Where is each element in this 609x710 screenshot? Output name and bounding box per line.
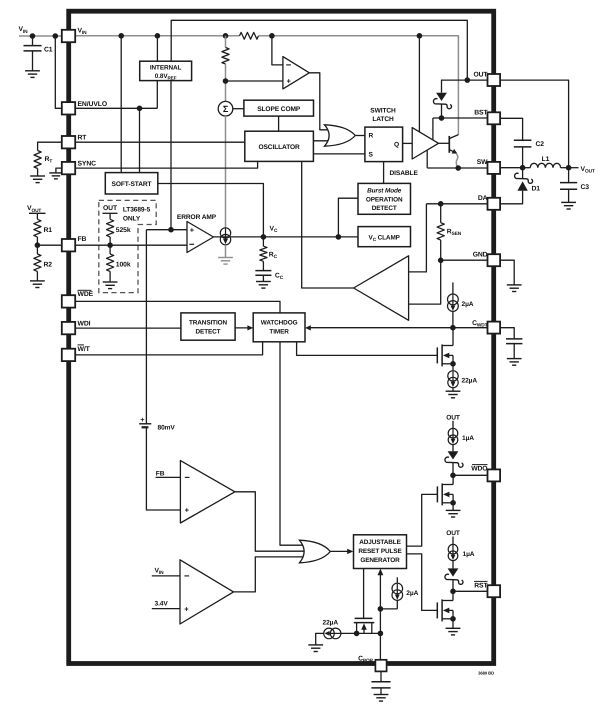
ground 22uA [446,391,461,398]
node BST junction [439,115,445,121]
svg-text:R2: R2 [44,262,53,269]
transistor M4 POR discharge [354,618,375,633]
node RST junction [450,589,456,595]
label OUT (option divider) [103,205,118,212]
wire FB comp - input [156,470,181,477]
wire current comp out [309,73,330,130]
wire reset gen to POR fet gate [363,569,365,619]
current source 2uA (POR) [392,577,419,609]
op-amp error amp [187,222,214,253]
wire C2 to SW node [522,147,524,168]
wire diode to RST node [452,580,454,592]
node VIN rail to driver [417,33,423,39]
current source 22uA (POR) [323,620,341,639]
svg-text:WATCHDOG: WATCHDOG [261,319,298,326]
svg-text:R: R [369,132,374,139]
svg-text:2µA: 2µA [462,301,474,308]
svg-text:OSCILLATOR: OSCILLATOR [258,144,300,151]
wire error amp cs down (gray) [225,245,227,258]
summing junction sigma [218,101,233,116]
pin WT [62,349,75,361]
wire oscillator to OR gate [313,140,332,142]
resistor 525k [107,219,131,237]
node VC at clamp [336,234,342,240]
wire VIN rail external [19,35,62,37]
svg-text:SOFT-START: SOFT-START [112,181,152,188]
label VIN external [19,26,29,35]
transistor M3 RST pulldown [437,591,453,621]
ground CC [256,275,271,288]
transistor M2 WDO pulldown [437,475,453,505]
svg-text:100k: 100k [116,262,131,269]
wire transition to watchdog arrow [235,325,253,330]
label pin OUT [473,71,488,78]
wire or to reset gen arrow [330,549,353,554]
block Burst Mode OPERATION DETECT [358,183,411,214]
current source 2uA (CWDT) [448,282,474,327]
resistor sense divider [222,48,229,65]
wire SYNC net [75,161,258,168]
wire VIN comp out to or [234,557,308,592]
svg-text:Burst Mode: Burst Mode [367,188,402,195]
node VIN rail to sense divider [223,33,229,39]
svg-text:525k: 525k [116,227,131,234]
node CPOR/2uA junction [378,606,384,612]
node POR fet left [354,631,360,637]
inductor L1 [523,156,569,168]
svg-text:FB: FB [78,236,87,243]
svg-text:TIMER: TIMER [269,328,289,335]
svg-text:22µA: 22µA [323,620,339,627]
wire battery to FB comp + [146,427,180,510]
wire RT external [38,142,62,150]
svg-text:WDE: WDE [78,291,94,298]
label VC node [270,226,278,235]
diode D1 [515,168,541,193]
figure number 3689 BD [478,671,494,676]
pin SYNC [62,162,75,174]
svg-text:TRANSITION: TRANSITION [189,319,228,326]
pin VIN [62,30,75,42]
capacitor CC [255,261,283,281]
node option divider junction [107,242,113,248]
pin WDE [62,295,75,307]
svg-text:+: + [140,415,144,424]
diode WDO clamp [445,451,463,467]
ground GND pin [507,285,522,292]
pin CPOR [375,660,386,672]
wire reset gen to M2 gate [407,494,438,546]
node EN junction [137,106,143,112]
pin WDI [62,322,75,334]
svg-text:C3: C3 [581,184,590,191]
block OSCILLATOR [245,131,314,161]
svg-text:RST: RST [474,582,488,589]
wire watchdog to discharge fet gate [297,342,438,356]
wire 22uA to ground [316,633,324,645]
capacitor C1 [24,36,53,71]
svg-text:INTERNAL: INTERNAL [150,65,182,72]
pin RT [62,136,75,148]
wire slope comp to oscillator [278,116,280,131]
buffer driver [412,128,438,159]
label pin WDO (overline) [471,465,487,473]
wire VIN rail internal [75,35,239,37]
label pin CWDT [472,320,488,329]
wire diode to WDO node [452,463,454,476]
svg-text:OUT: OUT [473,71,488,78]
pin CWDT [488,322,501,334]
svg-text:22µA: 22µA [462,378,478,385]
label pin GND [473,251,488,258]
resistor RT external [34,151,52,169]
wire EN branch [55,36,62,108]
wire to current comparator - [272,36,283,65]
label OUT (RST pullup) [446,530,460,537]
block TRANSITION DETECT [181,313,235,340]
svg-text:R1: R1 [44,227,53,234]
capacitor C2 [514,140,545,148]
wire WDO net [453,474,488,476]
label pin EN/UVLO [78,101,108,108]
svg-text:DISABLE: DISABLE [390,170,419,177]
svg-text:Q: Q [394,142,399,149]
svg-text:1µA: 1µA [462,435,474,442]
node CPOR wire junction [378,631,384,637]
svg-text:LATCH: LATCH [372,116,394,123]
node M3 source junction [450,616,456,622]
pin BST [488,112,501,124]
svg-text:SWITCH: SWITCH [370,107,396,114]
node VIN rail to VREF [155,33,161,39]
resistor RSEN [437,204,462,260]
IC boundary border [69,11,494,663]
wire or to latch R [355,135,365,137]
wire W/T net [75,342,263,355]
wire latch Q to driver [403,142,413,144]
wire GND net [441,259,488,261]
wire sigma down (gray) [225,116,227,228]
ground C1 [25,71,40,78]
svg-text:OUT: OUT [103,205,118,212]
label pin RT [78,135,88,142]
resistor R2 [34,254,53,271]
wire VC net [214,236,339,238]
svg-text:SLOPE COMP: SLOPE COMP [257,106,301,113]
wire DA net [426,203,487,205]
label pin BST [474,110,488,117]
wire VC clamp left [338,236,358,238]
label pin CPOR [358,655,374,664]
wire sense top (gray) [225,36,227,48]
label pin VIN [78,28,88,37]
label pin RST (overline) [474,581,488,589]
wire latch to burst detect [383,162,385,184]
block ADJUSTABLE RESET PULSE GENERATOR [354,535,407,569]
resistor R1 [34,219,53,237]
wire FB comp out to or [235,492,310,551]
node M1 source junction [450,361,456,367]
label pin WDE (overline) [78,290,94,298]
or-gate U4 (reset) [300,540,331,563]
label ERROR AMP [177,214,217,221]
label OUT (WDO pullup) [446,414,460,421]
ground R2 [30,271,45,287]
wire 525k-100k junction [109,237,111,254]
node FB divider junction [35,242,41,248]
wire CPOR feedback arrow [378,569,384,660]
svg-text:OUT: OUT [446,530,460,537]
wire BST net [433,117,488,119]
node VIN/EN branch junction [53,33,59,39]
wire FB net [75,244,187,246]
label pin DA [478,195,488,202]
comparator FB reset [180,461,235,523]
svg-text:C1: C1 [44,47,53,54]
ground RT [30,169,45,183]
diode RST clamp [445,568,463,584]
wire VREF to error amp + [170,81,172,230]
block SLOPE COMP [244,100,314,116]
ground CWDT external [507,344,522,366]
wire to current comparator + [226,80,283,82]
wire 2uA to CPOR node [380,608,397,610]
pin EN [62,102,75,114]
node error amp + junction [168,227,174,233]
svg-text:RT: RT [78,135,88,142]
block VC CLAMP [358,227,411,247]
current source error amp output [220,228,230,245]
label pin SW [477,159,488,166]
wire EN/UVLO net [75,81,157,109]
svg-text:SYNC: SYNC [78,161,97,168]
wire CWDT net with arrow [305,325,488,330]
wire POR fet bottom [340,632,380,634]
resistor 100k [107,254,131,271]
svg-text:3.4V: 3.4V [155,601,169,608]
dashed box LT3689-5 option [99,200,156,292]
capacitor CWDT external [506,339,522,344]
label VOUT external [27,205,41,214]
svg-text:DETECT: DETECT [196,328,221,335]
comparator VIN reset [180,560,234,624]
wire GND external [500,260,514,285]
svg-text:W/T: W/T [78,346,91,353]
svg-text:SW: SW [477,159,488,166]
wire D1 to DA [500,191,522,204]
svg-text:GENERATOR: GENERATOR [360,557,400,564]
svg-text:2µA: 2µA [406,590,418,597]
svg-text:80mV: 80mV [158,425,176,432]
block SOFT-START [105,173,158,194]
ground 22uA POR [308,645,323,652]
ground error amp cs (gray) [218,258,233,265]
pin SW [488,162,501,174]
capacitor C3 [560,168,589,191]
block INTERNAL 0.8VREF [140,61,192,80]
node VOUT junction [566,165,572,171]
current source 22uA (CWDT) [448,364,478,391]
svg-text:D1: D1 [532,185,541,192]
ground M3 [446,619,461,635]
pin OUT [488,74,501,86]
comparator current (pwm) [283,57,309,89]
battery 80mV [139,230,175,432]
svg-text:Σ: Σ [223,104,229,114]
svg-text:FB: FB [156,470,165,477]
svg-text:DETECT: DETECT [372,205,397,212]
node CWDT junction [450,325,456,331]
label DISABLE [390,170,419,177]
label pin FB [78,236,87,243]
label SWITCH LATCH [370,107,396,123]
node M2 source junction [450,500,456,506]
wire CWDT external [500,328,514,339]
diode boost [433,93,451,109]
wire soft-start to VC [158,184,264,237]
ground 100k [103,271,118,288]
svg-text:L1: L1 [542,156,550,163]
node SW/C2/D1/L1 junction [520,165,526,171]
wire oscillator to latch S [313,153,365,155]
wire burst comp out to oscillator [302,161,354,288]
svg-text:RESET PULSE: RESET PULSE [358,548,402,555]
wire burst detect to VC [338,198,358,237]
svg-text:OPERATION: OPERATION [366,196,403,203]
svg-text:ADJUSTABLE: ADJUSTABLE [359,539,401,546]
wire EN to soft-start [139,108,141,172]
transistor Q1 power NPN [439,135,459,154]
wire R1-R2 junction [36,237,38,254]
wire VIN to driver [418,36,420,132]
node current comp + junction [223,78,229,84]
svg-text:1µA: 1µA [463,551,475,558]
svg-text:ONLY: ONLY [123,216,141,223]
pin GND [488,254,501,266]
svg-text:S: S [369,152,374,159]
wire OUT terminal bar (option) [103,213,118,219]
svg-text:LT3689-5: LT3689-5 [123,207,151,214]
node SW emitter junction [455,165,461,171]
label pin WDI [78,320,91,327]
svg-text:BST: BST [474,110,488,117]
svg-text:ERROR AMP: ERROR AMP [177,214,217,221]
wire error amp + input [146,229,187,231]
ground CPOR [374,688,389,701]
wire VOUT terminal bar [29,213,46,219]
wire OUT to VOUT node [500,80,568,168]
block WATCHDOG TIMER [253,313,305,342]
node VIN rail after sense resistor [269,33,275,39]
wire VIN to soft-start [120,36,122,173]
svg-text:WDO: WDO [471,466,487,473]
svg-text:DA: DA [478,195,488,202]
label pin SYNC [78,161,97,168]
wire emitter bond (gray) [456,154,458,168]
transistor M1 CWDT discharge [437,328,453,367]
current source 1uA (RST) [448,537,475,569]
comparator burst (left) [354,256,409,320]
label VOUT right [569,166,595,175]
wire VIN comp + input [152,601,180,609]
wire VIN rail right segment [259,36,459,135]
wire SW external [500,167,522,169]
capacitor CPOR external [371,671,390,688]
node VC at RC [261,234,267,240]
resistor current-sense (on VIN rail) [240,32,259,39]
wire burst comp input GND [409,260,441,304]
node VIN/C1 junction [30,33,36,39]
wire boost diode to BST [441,104,443,118]
wire top rail to OUT [171,20,467,80]
svg-text:WDI: WDI [78,320,91,327]
wire burst comp input DA [409,204,427,272]
label pin W/T (overline W) [78,345,91,353]
wire watchdog to or gate [280,342,308,545]
svg-text:EN/UVLO: EN/UVLO [78,101,108,108]
wire sigma to slope comp [233,108,244,110]
svg-text:3689 BD: 3689 BD [478,671,494,676]
label LT3689-5 ONLY [123,207,151,223]
pin DA [488,198,501,210]
wire BST to driver [432,118,434,140]
wire driver bottom to SW [426,150,428,168]
pin RST [488,585,501,597]
latch U3 (switch latch) [365,127,403,162]
wire BST external [500,118,522,140]
wire OUT net top [442,80,488,93]
current source 1uA (WDO) [448,421,474,452]
wire RT net [75,141,245,143]
node RSEN/GND junction [438,258,444,264]
svg-text:GND: GND [473,251,488,258]
wire VREF top supply [156,36,158,61]
wire FB external [37,244,62,246]
wire WDI net [75,327,181,329]
pin WDO [488,469,501,481]
pin FB [62,239,75,251]
wire WDE net [75,301,280,313]
node WDO junction [450,473,456,479]
node OUT/top-rail junction [465,77,471,83]
wire reset gen to M3 gate [407,554,438,611]
svg-text:OUT: OUT [446,414,460,421]
ground M2 [446,503,461,517]
svg-text:C2: C2 [536,141,545,148]
or-gate U2 (PWM reset) [325,125,356,146]
node DA/RSEN junction [438,201,444,207]
resistor RC [260,237,278,261]
node VIN rail to soft-start [118,33,124,39]
wire sense mid (gray) [225,64,227,101]
ground SYNC [49,168,62,179]
wire SW net [427,167,487,169]
ground C3 [561,189,576,209]
wire VIN comp - input [152,567,180,576]
wire RST net [453,590,488,592]
